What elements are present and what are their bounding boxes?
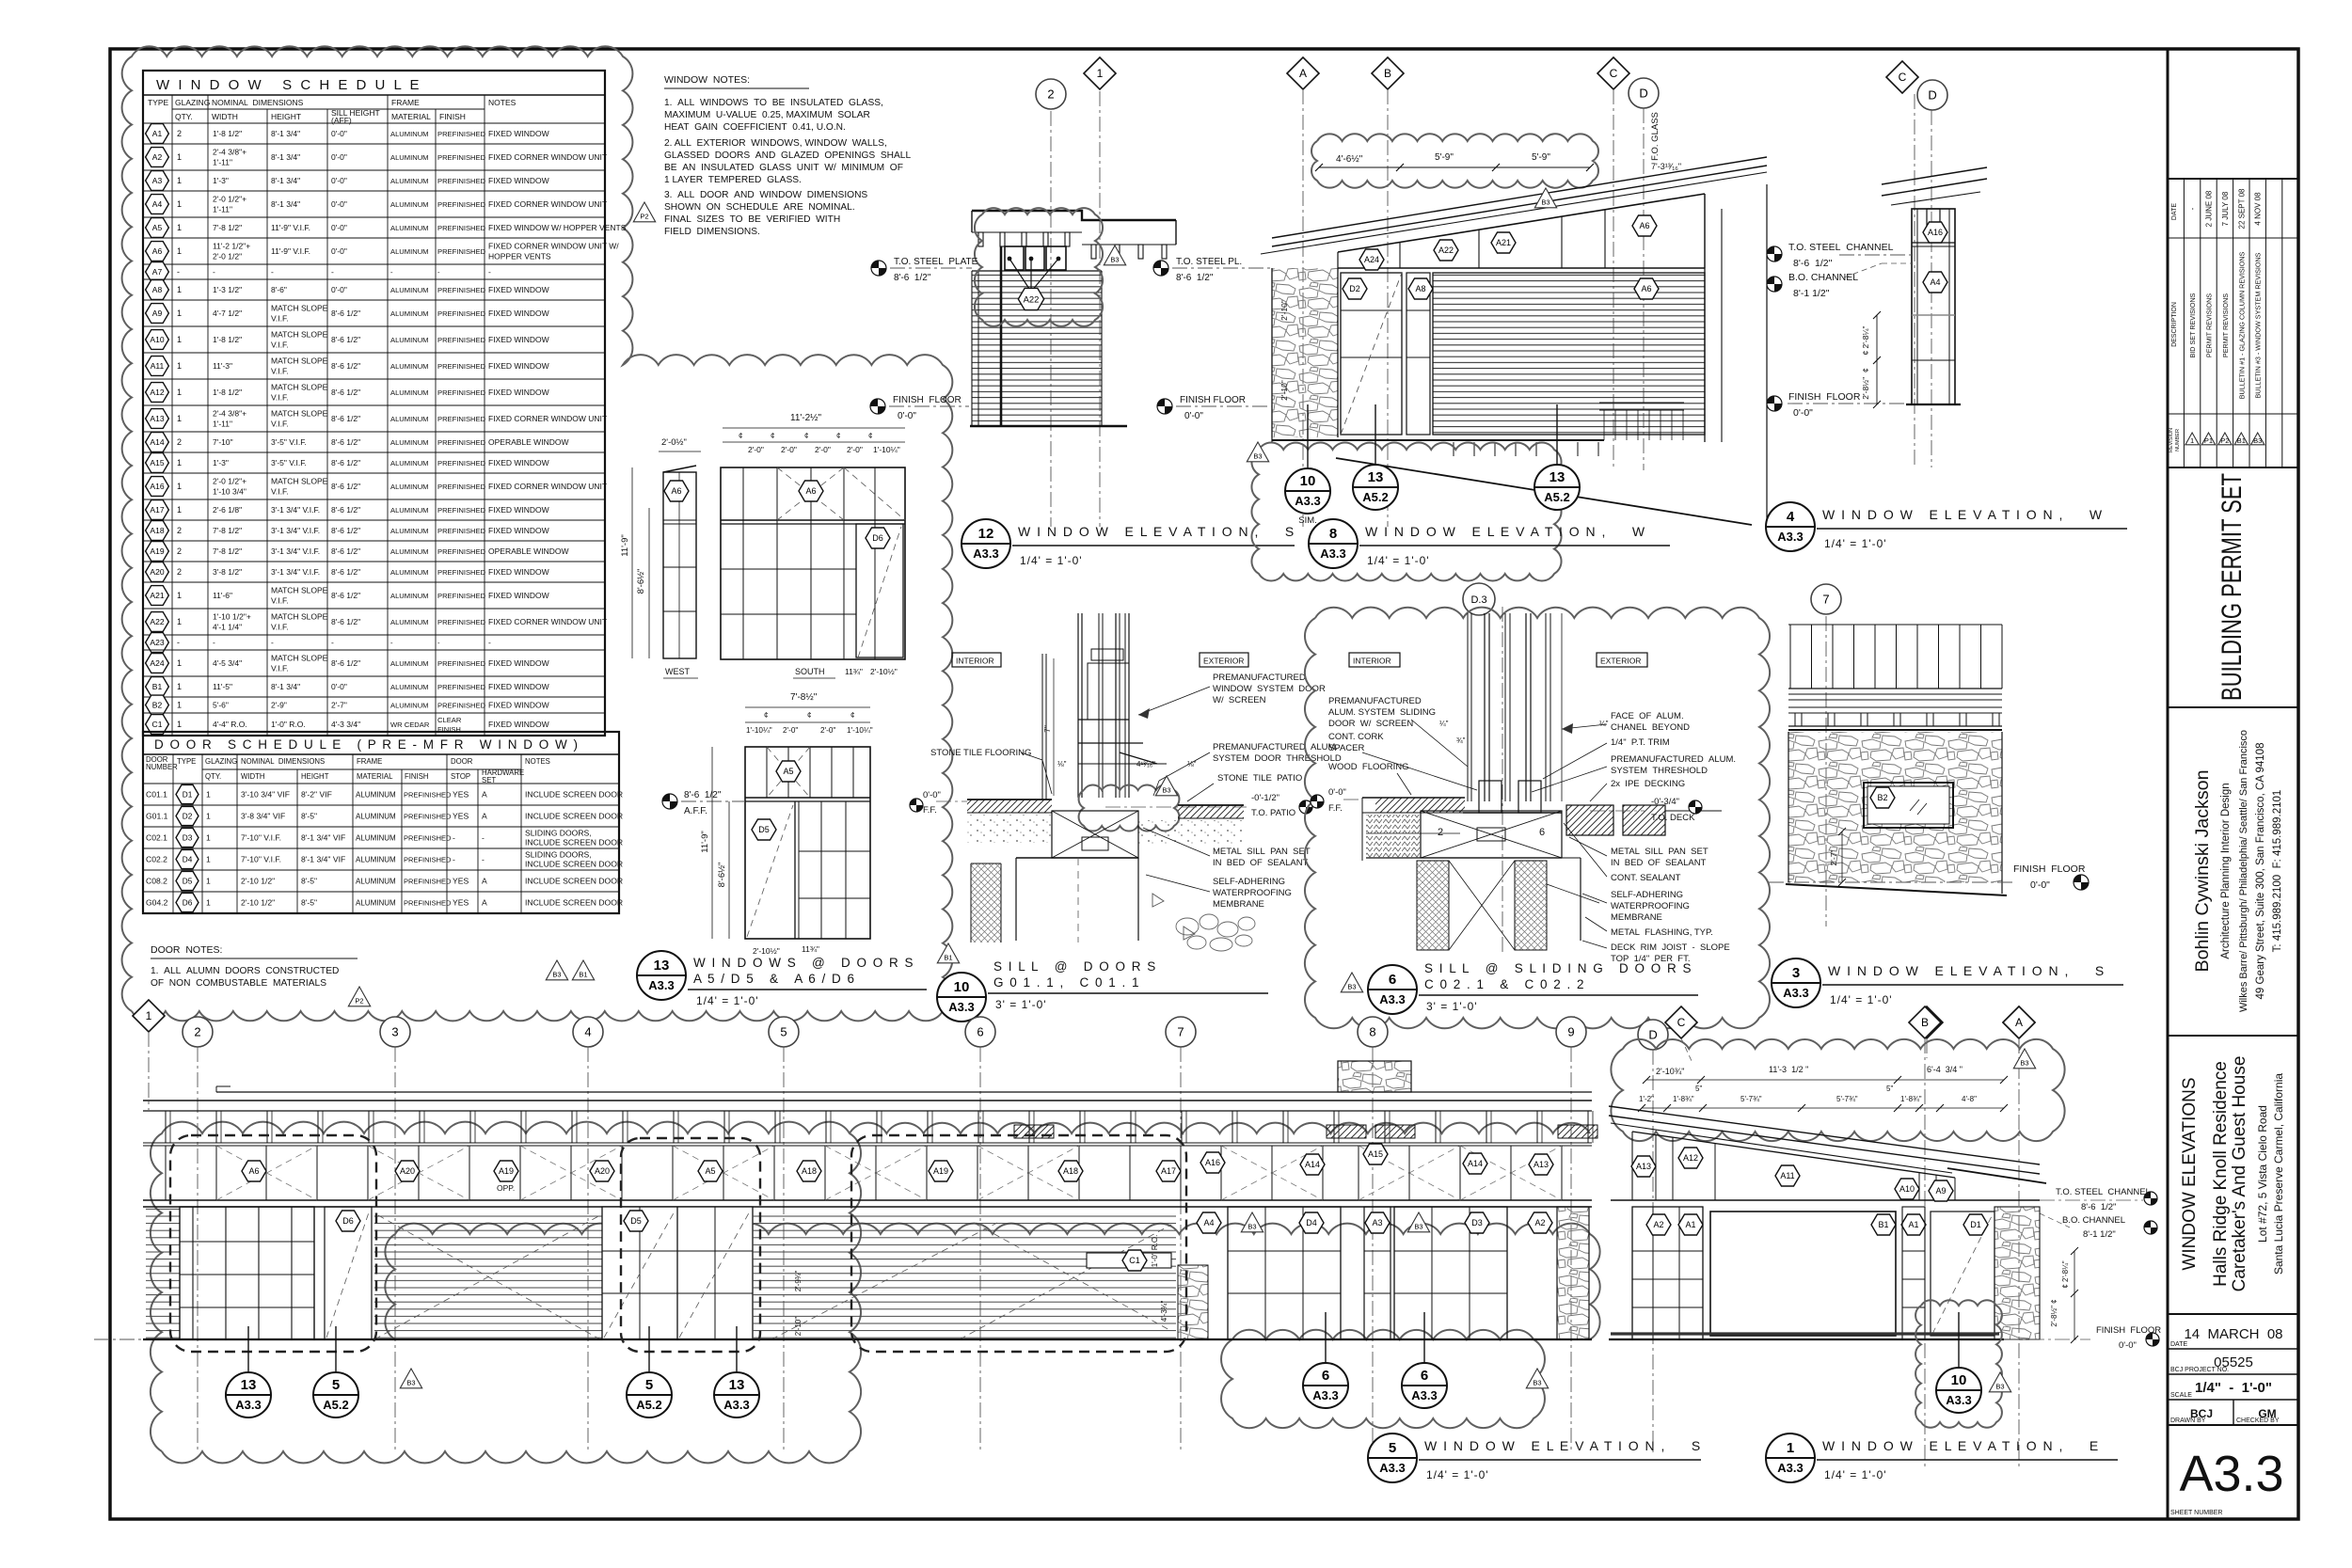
- svg-text:A17: A17: [150, 505, 164, 515]
- svg-text:NOMINAL DIMENSIONS: NOMINAL DIMENSIONS: [241, 757, 325, 766]
- floor hatch bands (detail 10): [967, 800, 1052, 813]
- svg-text:1'-10¼": 1'-10¼": [746, 726, 772, 735]
- svg-text:C 0 2 . 1 & C 0 2 . 2: C 0 2 . 1 & C 0 2 . 2: [1424, 977, 1585, 991]
- svg-text:4'-1 1/4": 4'-1 1/4": [213, 623, 242, 632]
- svg-text:D6: D6: [342, 1216, 354, 1226]
- svg-text:B3: B3: [1541, 198, 1549, 207]
- svg-text:1'-8¾": 1'-8¾": [1673, 1095, 1694, 1103]
- svg-text:INTERIOR: INTERIOR: [1353, 657, 1391, 666]
- svg-text:2'-7": 2'-7": [331, 701, 347, 710]
- svg-text:1'-8 1/2": 1'-8 1/2": [213, 388, 242, 397]
- svg-text:MATCH SLOPE: MATCH SLOPE: [271, 477, 328, 486]
- svg-text:D4: D4: [1306, 1218, 1317, 1227]
- svg-text:2'-10 1/2": 2'-10 1/2": [241, 898, 275, 908]
- svg-text:1: 1: [177, 388, 182, 397]
- svg-text:PREFINISHED: PREFINISHED: [437, 683, 486, 691]
- svg-text:STOP: STOP: [451, 772, 470, 781]
- svg-text:1: 1: [206, 812, 211, 821]
- hex tag A22 with leaders: [1009, 259, 1031, 292]
- finish floor line (elev 5): [143, 1338, 1592, 1340]
- svg-text:PREFINISHED: PREFINISHED: [437, 618, 486, 626]
- svg-text:FIXED WINDOW: FIXED WINDOW: [488, 701, 549, 710]
- svg-text:DOOR W/ SCREEN: DOOR W/ SCREEN: [1328, 719, 1413, 729]
- svg-text:V.I.F.: V.I.F.: [271, 596, 289, 606]
- marker D.3 circle: [1463, 583, 1495, 615]
- svg-text:3: 3: [1792, 965, 1800, 981]
- svg-text:FIXED WINDOW: FIXED WINDOW: [488, 458, 549, 467]
- svg-text:A5.2: A5.2: [1362, 490, 1388, 504]
- svg-text:1: 1: [177, 505, 182, 515]
- svg-text:1: 1: [177, 720, 182, 729]
- svg-text:A2: A2: [1534, 1218, 1545, 1227]
- svg-text:8'-6 1/2": 8'-6 1/2": [331, 309, 360, 318]
- svg-text:1'-10 3/4": 1'-10 3/4": [213, 487, 246, 497]
- svg-text:A3: A3: [152, 176, 163, 185]
- window column (elev 4): [1912, 209, 1955, 404]
- svg-text:0'-0": 0'-0": [2119, 1340, 2137, 1351]
- elevation 5: D6 window grid: [180, 1207, 314, 1339]
- svg-text:3'-1 3/4" V.I.F.: 3'-1 3/4" V.I.F.: [271, 546, 320, 556]
- svg-text:A3.3: A3.3: [973, 546, 998, 561]
- bottom grid marker diamond 1: [133, 1000, 165, 1032]
- chimney (elev 5): [1338, 1061, 1411, 1092]
- svg-text:¢: ¢: [764, 711, 768, 720]
- svg-text:05525: 05525: [2214, 1354, 2253, 1370]
- svg-text:C02.2: C02.2: [146, 855, 167, 864]
- svg-text:B3: B3: [1347, 983, 1356, 991]
- svg-text:MATCH SLOPE: MATCH SLOPE: [271, 586, 328, 595]
- svg-text:A3.3: A3.3: [235, 1398, 261, 1412]
- svg-text:1'-11": 1'-11": [213, 205, 232, 214]
- finish floor callout (elev 4): [1767, 396, 1782, 411]
- revision cloud around detail 6: [1305, 608, 1770, 1029]
- svg-text:A8: A8: [1415, 284, 1425, 293]
- svg-text:A15: A15: [150, 458, 164, 467]
- svg-text:FIXED WINDOW: FIXED WINDOW: [488, 176, 549, 185]
- grid marker diamond B (top): [1372, 57, 1404, 89]
- INTERIOR label (detail 10): [952, 653, 1001, 667]
- T.O. steel plate callout (elev 8): [1153, 261, 1168, 276]
- window schedule table: [143, 71, 605, 736]
- svg-text:ALUMINUM: ALUMINUM: [390, 286, 429, 294]
- svg-text:A23: A23: [150, 638, 164, 647]
- large revision cloud around schedules and drawing 13: [122, 46, 953, 1021]
- svg-text:2'-0": 2'-0": [820, 726, 835, 735]
- svg-text:8'-6 1/2": 8'-6 1/2": [1793, 258, 1833, 269]
- svg-text:A14: A14: [150, 437, 164, 447]
- svg-text:5: 5: [780, 1025, 787, 1039]
- svg-text:HEIGHT: HEIGHT: [271, 112, 301, 121]
- svg-text:MATERIAL: MATERIAL: [357, 772, 393, 781]
- svg-text:Caretaker's And Guest House: Caretaker's And Guest House: [2230, 1056, 2249, 1292]
- svg-text:7'-8 1/2": 7'-8 1/2": [213, 546, 242, 556]
- svg-text:ALUMINUM: ALUMINUM: [390, 702, 429, 710]
- svg-text:A4: A4: [1203, 1218, 1214, 1227]
- svg-text:PREFINISHED: PREFINISHED: [437, 592, 486, 600]
- svg-text:8'-6 1/2": 8'-6 1/2": [331, 526, 360, 535]
- svg-text:49 Geary Street, Suite 300, Sa: 49 Geary Street, Suite 300, San Francisc…: [2255, 743, 2266, 1000]
- svg-text:BCJ: BCJ: [2190, 1407, 2213, 1420]
- svg-text:1/4' = 1'-0': 1/4' = 1'-0': [1824, 1468, 1887, 1481]
- svg-text:PREFINISHED: PREFINISHED: [437, 200, 486, 209]
- svg-text:FIXED CORNER WINDOW UNIT: FIXED CORNER WINDOW UNIT: [488, 482, 607, 491]
- svg-text:2: 2: [177, 546, 182, 556]
- bottom grid marker circle 9: [1556, 1017, 1586, 1047]
- svg-text:11¾": 11¾": [802, 944, 819, 954]
- svg-text:2: 2: [177, 129, 182, 138]
- svg-text:A22: A22: [1024, 294, 1040, 305]
- svg-text:D: D: [1648, 1028, 1657, 1042]
- grid marker circle 2 (top): [1036, 79, 1066, 109]
- svg-text:PREMANUFACTURED ALUM.: PREMANUFACTURED ALUM.: [1611, 754, 1736, 765]
- svg-text:7'-10" V.I.F.: 7'-10" V.I.F.: [241, 855, 281, 864]
- svg-text:INCLUDE SCREEN DOOR: INCLUDE SCREEN DOOR: [525, 898, 623, 908]
- svg-text:A21: A21: [150, 591, 164, 600]
- svg-text:B1: B1: [152, 682, 163, 691]
- svg-text:YES: YES: [453, 898, 469, 908]
- detail reference 13/A5.2 (right): [1556, 404, 1558, 465]
- svg-text:8: 8: [1369, 1025, 1375, 1039]
- svg-text:OPERABLE WINDOW: OPERABLE WINDOW: [488, 546, 568, 556]
- svg-text:A: A: [482, 790, 487, 800]
- svg-text:5'-9": 5'-9": [1435, 152, 1454, 163]
- svg-text:A: A: [482, 812, 487, 821]
- svg-text:11'-9": 11'-9": [620, 534, 630, 557]
- svg-text:YES: YES: [453, 790, 469, 800]
- title: 8 WINDOW ELEVATION, W: [1309, 519, 1358, 568]
- svg-text:13: 13: [729, 1377, 745, 1393]
- svg-text:PREFINISHED: PREFINISHED: [437, 388, 486, 397]
- triangle B3 markers (elev 8): [1247, 442, 1268, 462]
- svg-text:4: 4: [584, 1025, 591, 1039]
- svg-text:FIXED WINDOW: FIXED WINDOW: [488, 526, 549, 535]
- svg-text:C: C: [1610, 67, 1618, 80]
- svg-text:DECK RIM JOIST - SLOPE: DECK RIM JOIST - SLOPE: [1611, 942, 1730, 953]
- svg-text:IN BED OF SEALANT: IN BED OF SEALANT: [1213, 858, 1309, 868]
- svg-text:PREFINISHED: PREFINISHED: [437, 415, 486, 423]
- grid marker diamond C (top): [1597, 57, 1629, 89]
- svg-text:QTY.: QTY.: [175, 112, 193, 121]
- svg-text:1: 1: [2190, 436, 2194, 445]
- svg-text:FIXED CORNER WINDOW UNIT: FIXED CORNER WINDOW UNIT: [488, 199, 607, 209]
- svg-text:3'-10 3/4" VIF: 3'-10 3/4" VIF: [241, 790, 290, 800]
- svg-text:B3: B3: [1414, 1223, 1422, 1231]
- svg-text:D: D: [1639, 87, 1647, 101]
- svg-text:EXTERIOR: EXTERIOR: [1203, 657, 1244, 666]
- svg-text:-0'-1/2": -0'-1/2": [1251, 793, 1279, 803]
- centerlines elevation 8: [1302, 89, 1304, 527]
- svg-text:13: 13: [1368, 469, 1384, 485]
- svg-text:D5: D5: [630, 1216, 642, 1226]
- svg-text:1'-11": 1'-11": [213, 158, 232, 167]
- svg-text:1/4" - 1'-0": 1/4" - 1'-0": [2195, 1380, 2272, 1396]
- svg-text:8'-6 1/2": 8'-6 1/2": [331, 617, 360, 626]
- svg-text:A: A: [1299, 67, 1307, 80]
- svg-text:FIXED WINDOW: FIXED WINDOW: [488, 361, 549, 371]
- svg-text:5: 5: [645, 1377, 653, 1393]
- svg-text:0'-0": 0'-0": [1184, 411, 1203, 421]
- svg-text:1: 1: [206, 833, 211, 843]
- svg-text:A1: A1: [1908, 1220, 1918, 1229]
- svg-text:DOOR NOTES:: DOOR NOTES:: [151, 944, 222, 956]
- svg-text:2: 2: [1047, 87, 1054, 102]
- svg-text:PREFINISHED: PREFINISHED: [437, 483, 486, 491]
- vertical dims (elev 4): [1876, 315, 1878, 404]
- centerlines elevation 4: [1914, 94, 1915, 467]
- svg-text:1'-0" R.O.: 1'-0" R.O.: [1151, 1235, 1159, 1268]
- svg-text:0'-0": 0'-0": [2030, 879, 2050, 891]
- svg-text:8'-6 1/2": 8'-6 1/2": [331, 335, 360, 344]
- svg-text:A12: A12: [1683, 1153, 1698, 1163]
- svg-text:8'-6 1/2": 8'-6 1/2": [331, 591, 360, 600]
- svg-text:A8: A8: [152, 285, 163, 294]
- svg-text:W I N D O W E L E V A T I O: W I N D O W E L E V A T I O N , S: [1018, 524, 1295, 539]
- svg-text:HEIGHT: HEIGHT: [301, 772, 329, 781]
- svg-text:B1: B1: [1878, 1220, 1888, 1229]
- svg-text:A3.3: A3.3: [648, 978, 674, 992]
- triangle B3 (detail 6 title): [1341, 973, 1362, 992]
- svg-text:FIXED WINDOW: FIXED WINDOW: [488, 682, 549, 691]
- bottom grid marker circle 5: [769, 1017, 799, 1047]
- svg-text:T.O. STEEL CHANNEL: T.O. STEEL CHANNEL: [2056, 1187, 2151, 1197]
- right column + deck (elev 8): [1704, 194, 1706, 442]
- svg-text:V.I.F.: V.I.F.: [271, 664, 289, 673]
- triangle B1 (detail 10 title): [937, 943, 959, 963]
- svg-text:WATERPROOFING: WATERPROOFING: [1611, 901, 1690, 911]
- svg-text:FIXED CORNER WINDOW UNIT W/: FIXED CORNER WINDOW UNIT W/: [488, 242, 619, 251]
- svg-text:¢: ¢: [807, 711, 811, 720]
- svg-text:D5: D5: [758, 825, 770, 834]
- svg-text:1'-11": 1'-11": [213, 420, 232, 429]
- svg-text:A11: A11: [1780, 1171, 1794, 1180]
- svg-text:A3.3: A3.3: [1295, 494, 1320, 508]
- svg-text:2 JUNE 08: 2 JUNE 08: [2205, 190, 2214, 227]
- svg-text:NOMINAL DIMENSIONS: NOMINAL DIMENSIONS: [212, 98, 304, 107]
- svg-text:FINISH FLOOR: FINISH FLOOR: [2013, 863, 2086, 875]
- svg-text:2'-8½" ¢: 2'-8½" ¢: [2050, 1299, 2058, 1326]
- svg-text:0'-0": 0'-0": [923, 790, 941, 800]
- svg-text:3'-1 3/4" V.I.F.: 3'-1 3/4" V.I.F.: [271, 567, 320, 577]
- svg-text:1: 1: [177, 309, 182, 318]
- svg-text:3. ALL DOOR AND WINDOW DI: 3. ALL DOOR AND WINDOW DIMENSIONS: [664, 190, 867, 200]
- svg-text:ALUMINUM: ALUMINUM: [390, 130, 429, 138]
- roof slope (elev 1): [1609, 1106, 2040, 1164]
- svg-text:DATE: DATE: [2170, 1341, 2187, 1348]
- svg-text:MATCH SLOPE: MATCH SLOPE: [271, 356, 328, 366]
- svg-text:7 JULY 08: 7 JULY 08: [2221, 191, 2230, 226]
- svg-text:FIXED WINDOW: FIXED WINDOW: [488, 309, 549, 318]
- svg-text:A3.3: A3.3: [2179, 1446, 2283, 1502]
- svg-text:A.F.F.: A.F.F.: [684, 806, 707, 816]
- detail refs below elevation 5 (mid pair): [648, 1326, 650, 1372]
- svg-text:8'-6 1/2": 8'-6 1/2": [331, 388, 360, 397]
- svg-text:BULLETIN #1 - GLAZING COLUMN R: BULLETIN #1 - GLAZING COLUMN REVISIONS: [2237, 252, 2246, 400]
- svg-text:8'-1 3/4": 8'-1 3/4": [271, 199, 300, 209]
- svg-text:ALUMINUM: ALUMINUM: [356, 791, 396, 800]
- svg-text:1: 1: [177, 285, 182, 294]
- svg-text:SELF-ADHERING: SELF-ADHERING: [1611, 890, 1683, 900]
- svg-text:FINISH FLOOR: FINISH FLOOR: [1788, 391, 1861, 403]
- svg-text:G 0 1 . 1 , C 0 1 . 1: G 0 1 . 1 , C 0 1 . 1: [993, 975, 1140, 990]
- svg-text:(AFF): (AFF): [331, 116, 352, 125]
- stone column right end (elev 5): [1557, 1207, 1589, 1339]
- finish floor callout (elev 8): [1157, 399, 1172, 414]
- clerestory windows (elev 5): [143, 1145, 1592, 1147]
- bottom grid marker diamond B: [1909, 1006, 1941, 1038]
- svg-text:A24: A24: [1364, 255, 1379, 264]
- svg-text:0'-0": 0'-0": [1793, 407, 1813, 419]
- svg-text:PREFINISHED: PREFINISHED: [437, 702, 486, 710]
- svg-text:6: 6: [1389, 972, 1396, 988]
- svg-text:-: -: [331, 638, 334, 647]
- svg-text:PREFINISHED: PREFINISHED: [437, 177, 486, 185]
- svg-text:G01.1: G01.1: [146, 812, 168, 821]
- svg-text:W I N D O W E L E V A T I O: W I N D O W E L E V A T I O N , W: [1822, 507, 2104, 522]
- svg-text:D2: D2: [183, 812, 193, 820]
- svg-text:14 MARCH 08: 14 MARCH 08: [2184, 1326, 2282, 1342]
- bottom grid marker circle 3: [380, 1017, 410, 1047]
- svg-text:4¹³⁄₁₆": 4¹³⁄₁₆": [1136, 760, 1155, 768]
- EXTERIOR label (detail 6): [1597, 653, 1647, 667]
- svg-text:A20: A20: [150, 567, 164, 577]
- svg-text:NOTES: NOTES: [525, 757, 550, 766]
- svg-text:A6: A6: [671, 486, 681, 496]
- svg-text:-: -: [488, 638, 491, 647]
- svg-text:A4: A4: [152, 199, 163, 209]
- svg-text:3'-1 3/4" V.I.F.: 3'-1 3/4" V.I.F.: [271, 505, 320, 515]
- svg-text:B: B: [1921, 1016, 1929, 1029]
- svg-text:C: C: [1677, 1016, 1686, 1029]
- svg-text:¢ 2'-8¼": ¢ 2'-8¼": [1861, 325, 1870, 355]
- svg-text:5'-7¾": 5'-7¾": [1836, 1095, 1858, 1103]
- svg-text:MEMBRANE: MEMBRANE: [1213, 899, 1264, 910]
- revision cloud clerestory strip (elev 5 right part): [850, 1123, 1590, 1133]
- svg-text:S I L L @ D O O R S: S I L L @ D O O R S: [993, 959, 1157, 974]
- svg-text:7: 7: [1177, 1025, 1184, 1039]
- svg-text:9: 9: [1567, 1025, 1574, 1039]
- stone hatch right (elev 1): [1994, 1207, 2040, 1339]
- svg-text:IN BED OF SEALANT: IN BED OF SEALANT: [1611, 858, 1707, 868]
- elevation 5: siding with dashed diagonals (left): [374, 1213, 602, 1339]
- svg-text:V.I.F.: V.I.F.: [271, 367, 289, 376]
- svg-text:INTERIOR: INTERIOR: [956, 657, 994, 666]
- dimension string (elev 8 top): [1319, 166, 1590, 168]
- svg-text:V.I.F.: V.I.F.: [271, 314, 289, 324]
- svg-text:HOPPER VENTS: HOPPER VENTS: [488, 252, 551, 261]
- svg-text:D.3: D.3: [1470, 594, 1486, 606]
- svg-text:INCLUDE SCREEN DOOR: INCLUDE SCREEN DOOR: [525, 877, 623, 886]
- svg-text:FIXED WINDOW: FIXED WINDOW: [488, 285, 549, 294]
- svg-text:V.I.F.: V.I.F.: [271, 393, 289, 403]
- svg-text:T: 415.989.2100 F: 415.989.21: T: 415.989.2100 F: 415.989.2101: [2272, 790, 2283, 953]
- svg-text:-: -: [453, 855, 455, 864]
- svg-text:1: 1: [177, 414, 182, 423]
- svg-text:0'-0": 0'-0": [898, 411, 916, 421]
- svg-text:11¾": 11¾": [845, 667, 863, 676]
- svg-text:12: 12: [978, 526, 994, 542]
- svg-text:T.O. STEEL CHANNEL: T.O. STEEL CHANNEL: [1788, 242, 1894, 253]
- svg-text:PREFINISHED: PREFINISHED: [404, 878, 452, 886]
- revision cloud top (elev 1): [1611, 1039, 2064, 1141]
- svg-text:0'-0": 0'-0": [331, 246, 347, 256]
- svg-text:1: 1: [177, 223, 182, 232]
- svg-text:1'-8 1/2": 1'-8 1/2": [213, 335, 242, 344]
- svg-text:-0'-3/4": -0'-3/4": [1651, 797, 1679, 807]
- heavy dashed boundary around D5 doors: [621, 1138, 760, 1352]
- svg-text:A17: A17: [1161, 1166, 1176, 1176]
- BUILDING PERMIT SET: [2168, 706, 2298, 708]
- svg-text:B3: B3: [1533, 1379, 1541, 1387]
- svg-text:PREFINISHED: PREFINISHED: [437, 153, 486, 162]
- revision cloud left lobe (elev 5): [151, 1122, 861, 1464]
- svg-text:1: 1: [177, 617, 182, 626]
- svg-text:1'-0" R.O.: 1'-0" R.O.: [271, 720, 306, 729]
- svg-text:2'-10¾": 2'-10¾": [1656, 1067, 1684, 1076]
- svg-text:1: 1: [177, 176, 182, 185]
- bottom grid marker diamond A: [2003, 1006, 2035, 1038]
- svg-text:A6: A6: [248, 1166, 259, 1176]
- svg-text:2: 2: [177, 437, 182, 447]
- svg-text:FIXED WINDOW: FIXED WINDOW: [488, 720, 549, 729]
- svg-text:1 LAYER TEMPERED GLASS.: 1 LAYER TEMPERED GLASS.: [664, 175, 802, 185]
- svg-text:Bohlin Cywinski Jackson: Bohlin Cywinski Jackson: [2193, 770, 2213, 973]
- svg-text:1: 1: [177, 658, 182, 668]
- svg-text:P2: P2: [355, 997, 363, 1006]
- svg-text:2'-9¾": 2'-9¾": [794, 1271, 803, 1292]
- svg-text:PERMIT REVISIONS: PERMIT REVISIONS: [2221, 293, 2230, 357]
- elevation 12: window + siding: [972, 271, 1102, 426]
- svg-text:1: 1: [206, 855, 211, 864]
- elevation 5: left siding strip: [146, 1207, 180, 1339]
- svg-text:MATERIAL: MATERIAL: [391, 112, 431, 121]
- svg-text:2'-4 3/8"+: 2'-4 3/8"+: [213, 148, 246, 157]
- svg-text:4'-3¾": 4'-3¾": [1160, 1301, 1168, 1323]
- svg-text:11'-9": 11'-9": [700, 831, 710, 853]
- svg-text:1: 1: [177, 335, 182, 344]
- svg-text:ALUMINUM: ALUMINUM: [356, 813, 396, 821]
- svg-text:A: A: [482, 898, 487, 908]
- svg-text:PREFINISHED: PREFINISHED: [404, 813, 452, 821]
- detail reference 10/A3.3 SIM.: [1307, 404, 1309, 468]
- svg-text:4'-7 1/2": 4'-7 1/2": [213, 309, 242, 318]
- svg-text:T.O. STEEL PLATE: T.O. STEEL PLATE: [894, 257, 978, 267]
- svg-text:PREFINISHED: PREFINISHED: [437, 286, 486, 294]
- svg-text:⅛": ⅛": [1057, 760, 1067, 768]
- svg-text:METAL SILL PAN SET: METAL SILL PAN SET: [1213, 847, 1311, 857]
- svg-text:YES: YES: [453, 812, 469, 821]
- svg-text:A20: A20: [595, 1166, 610, 1176]
- svg-text:FACE OF ALUM.: FACE OF ALUM.: [1611, 711, 1684, 721]
- roof lines (elev 4): [1882, 167, 1987, 184]
- title: 4 WINDOW ELEVATION, W: [1766, 502, 1815, 551]
- svg-text:ALUMINUM: ALUMINUM: [390, 568, 429, 577]
- svg-text:A5: A5: [783, 767, 793, 776]
- svg-text:-: -: [2188, 207, 2197, 210]
- svg-text:1/4" P.T. TRIM: 1/4" P.T. TRIM: [1611, 737, 1670, 748]
- svg-text:WEST: WEST: [665, 667, 691, 676]
- svg-text:PREFINISHED: PREFINISHED: [437, 547, 486, 556]
- svg-text:OPERABLE WINDOW: OPERABLE WINDOW: [488, 437, 568, 447]
- svg-text:PREFINISHED: PREFINISHED: [404, 834, 452, 843]
- svg-text:WIDTH: WIDTH: [241, 772, 265, 781]
- svg-text:-: -: [488, 267, 491, 277]
- svg-text:B3: B3: [1162, 786, 1170, 795]
- svg-text:A2: A2: [1653, 1220, 1663, 1229]
- svg-text:C1: C1: [152, 720, 163, 729]
- svg-text:4'-4" R.O.: 4'-4" R.O.: [213, 720, 247, 729]
- svg-text:A3.3: A3.3: [723, 1398, 749, 1412]
- title: 5 WINDOW ELEVATION, S: [1368, 1433, 1417, 1482]
